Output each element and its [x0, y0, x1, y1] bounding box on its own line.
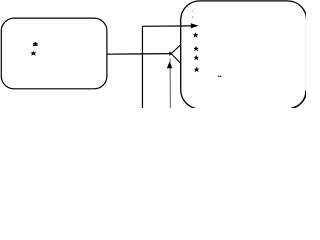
crow arrowhead lower barb [169, 52, 181, 64]
dotted marks top [192, 11, 193, 12]
label dots ".." [218, 75, 220, 77]
node box left [1, 18, 107, 89]
node box right (clipped at canvas edges) [181, 1, 307, 109]
star glyph 3 [194, 55, 199, 60]
arrowhead into right box [191, 23, 199, 28]
node corner arc bottom-right [292, 91, 306, 108]
star glyph 1 [193, 32, 198, 37]
wire up from bottom [169, 59, 171, 109]
star glyph 2 [194, 46, 199, 51]
wire left box to right box [107, 53, 171, 56]
label glyph line2 (left box) [31, 51, 36, 56]
star glyph 4 [194, 67, 199, 72]
wire vertical from bottom [142, 26, 190, 108]
arrowhead up [167, 62, 173, 69]
crow arrowhead upper barb [169, 45, 181, 56]
label glyph line1 (left box) [33, 42, 38, 46]
